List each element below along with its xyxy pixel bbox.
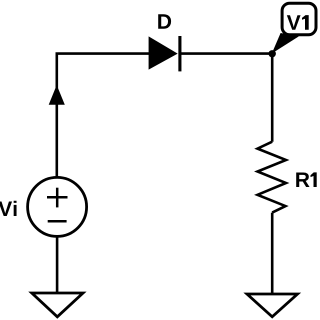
resistor R1 zigzag — [258, 142, 287, 213]
plus sign inside source — [47, 196, 68, 199]
callout pointer wedge to V1 box — [272, 33, 299, 54]
diode D cathode bar — [178, 36, 181, 71]
label Vi — [0, 201, 17, 216]
label V1 — [287, 15, 301, 29]
wire from Vi top up and right to diode anode — [57, 54, 150, 177]
ground (right) — [247, 294, 298, 317]
wire Vi bottom to left ground — [56, 236, 59, 293]
arrow (current direction) on left wire — [49, 85, 65, 105]
wire from diode cathode to node — [180, 52, 272, 55]
label R1 — [296, 173, 309, 187]
voltage source Vi circle — [28, 177, 87, 236]
wire resistor to right ground — [271, 213, 274, 294]
diode D triangle (anode) — [149, 36, 178, 69]
wire node down to resistor — [271, 54, 274, 142]
label D — [158, 14, 171, 28]
minus sign inside source — [48, 220, 67, 223]
V1 node label box — [282, 3, 316, 35]
ground (left) — [32, 293, 83, 317]
node junction dot — [269, 50, 276, 57]
